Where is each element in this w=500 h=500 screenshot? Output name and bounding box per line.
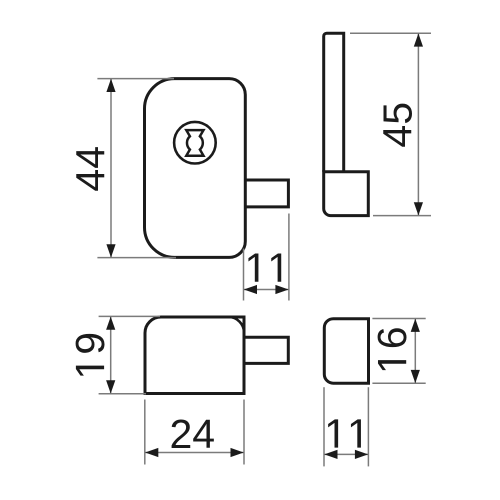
dim 16: label digit 1 [378,360,406,370]
dim 16: bottom arrow [411,370,420,383]
dim 45: bottom arrow [414,202,423,215]
side view: mounting plate bar [324,33,344,172]
dim 11 (bolt, front view): label digit 1 [271,253,281,281]
dim 19: top arrow [106,317,115,330]
dim 45: top arrow [414,33,423,46]
dim 44: bottom arrow [106,244,115,257]
front view: lock body [145,79,246,258]
dim 19: label digit 1 [76,366,104,376]
svg-text:9: 9 [67,332,113,355]
dim 11 (end view): dimension line [324,453,368,455]
front view: latch bolt [244,180,288,207]
dim 11 (end view): left arrow [324,450,337,459]
dim 24: left arrow [145,448,158,457]
dim 44: bottom extension line [97,257,176,259]
end view: bolt housing block [324,319,368,384]
dim 11 (end view): left extension line [323,387,325,466]
top view: latch bolt [244,337,288,363]
dim 11 (bolt, front view): right extension line [288,214,290,301]
svg-text:24: 24 [169,411,215,457]
dim 19: dimension line [110,317,112,394]
dim 11 (bolt, front view): label digit 1 [248,253,258,281]
dim 16: top arrow [411,319,420,332]
dim 24: right extension line [243,400,245,465]
svg-text:6: 6 [369,326,415,349]
top view: rounded edge arc [229,317,245,333]
dim 19: bottom extension line [99,393,146,395]
dim 16: bottom extension line [372,382,425,384]
dim 11 (end view): right extension line [367,387,369,466]
dim 44: top extension line [97,78,174,80]
dim 44: dimension line [110,79,112,257]
side view: bolt housing block [324,172,369,216]
dim 44: top arrow [106,79,115,92]
dim 45: top extension line [350,32,431,34]
dim 11 (end view): label digit 1 [351,419,361,447]
top view: lock body [145,317,244,394]
dim 11 (bolt, front view): dimension line [244,289,289,291]
dim 19: top extension line [99,315,160,317]
dim 16: top extension line [372,318,425,320]
front view: keyway spool shape [186,130,203,156]
dim 45: dimension line [417,34,419,216]
dim 24: left extension line [144,400,146,465]
svg-text:44: 44 [68,146,114,192]
dim 24: dimension line [145,452,243,454]
front view: cylinder circle [174,122,216,164]
svg-text:45: 45 [374,102,420,148]
dim 19: bottom arrow [106,380,115,393]
dim 24: right arrow [231,448,244,457]
dim 16: dimension line [414,319,416,383]
dim 11 (end view): label digit 1 [328,419,338,447]
dim 11 (bolt, front view): left extension line [243,249,245,301]
dim 45: bottom extension line [373,215,431,217]
dim 11 (bolt, front view): right arrow [275,285,288,294]
dim 11 (bolt, front view): left arrow [244,285,257,294]
dim 11 (end view): right arrow [355,450,368,459]
